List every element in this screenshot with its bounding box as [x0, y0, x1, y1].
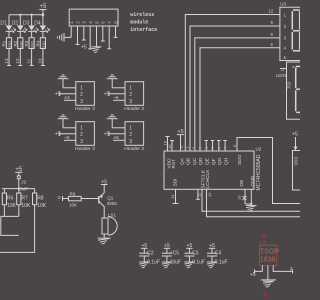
wire U4 pin3 out (2)	[273, 265, 293, 273]
svg-text:R8: R8	[37, 196, 44, 202]
svg-text:QG: QG	[217, 157, 223, 165]
label wireless module interface	[130, 12, 157, 33]
wire pin1 to ground	[112, 119, 125, 128]
wire pullup rail	[2, 189, 35, 193]
wire pin7 stub	[107, 26, 111, 49]
svg-text:QE: QE	[205, 158, 211, 165]
net stub 10	[38, 49, 45, 66]
svg-text:A4: A4	[64, 95, 70, 100]
svg-text:R7: R7	[21, 196, 28, 202]
+5 power at Q1 emitter	[101, 180, 108, 186]
capacitor C3 0.1uF	[184, 243, 205, 265]
svg-text:R9: R9	[70, 192, 76, 197]
resistor R2	[13, 31, 23, 48]
jumper J2 JMP	[17, 176, 28, 193]
svg-text:2: 2	[129, 92, 132, 98]
svg-text:+5: +5	[292, 132, 298, 138]
svg-text:2: 2	[129, 132, 132, 138]
wire pin1 to bus ground	[64, 26, 71, 37]
svg-text:3: 3	[129, 139, 132, 145]
ground (stacked bars)	[58, 75, 69, 79]
ground	[91, 47, 101, 53]
svg-text:R1: R1	[2, 40, 7, 46]
svg-text:VDD: VDD	[294, 157, 299, 166]
wire pin5 to ground	[96, 26, 98, 47]
ground	[162, 262, 172, 268]
header P3 (~5)	[75, 122, 95, 152]
wire R8 output	[0, 205, 35, 253]
wire QC to display pin (8)	[195, 32, 280, 151]
transistor Q1 3906	[99, 185, 117, 215]
svg-text:330: 330	[41, 41, 46, 48]
svg-text:MC74HC595AD: MC74HC595AD	[256, 154, 262, 190]
svg-text:QH: QH	[223, 157, 229, 165]
svg-text:12: 12	[207, 192, 212, 197]
wire pin3 net ~5	[64, 135, 76, 140]
connector J1 wireless module	[69, 9, 118, 26]
ground (stacked bars)	[107, 115, 118, 119]
svg-text:3906: 3906	[107, 201, 118, 206]
svg-text:1: 1	[80, 126, 83, 132]
svg-text:C3: C3	[192, 251, 199, 257]
ground (stacked bars)	[107, 75, 118, 79]
resistor R4	[36, 31, 46, 48]
IC U2 MC74HC595AD	[164, 145, 262, 190]
+5 power arrow at U1	[292, 132, 298, 151]
svg-text:3: 3	[80, 139, 83, 145]
svg-text:6: 6	[217, 147, 221, 149]
header P4 (A5)	[124, 122, 144, 152]
wire SDO (pin 9) to U1	[232, 138, 300, 204]
wire pin1 to ground	[112, 79, 125, 88]
svg-text:+5: +5	[81, 45, 87, 51]
svg-text:12: 12	[269, 9, 274, 14]
svg-text:+C5: +C5	[170, 251, 180, 257]
+5 power at J2	[15, 167, 23, 177]
svg-text:module: module	[130, 20, 148, 26]
LED6 7-seg digit (partial)	[296, 66, 300, 112]
svg-text:7: 7	[224, 147, 228, 149]
wire pin3 stub	[82, 26, 86, 40]
VDD pin 16 stub	[163, 137, 170, 152]
svg-text:+5: +5	[55, 132, 61, 138]
resistor R6 10K	[2, 193, 16, 209]
svg-text:2: 2	[80, 132, 83, 138]
svg-text:12: 12	[15, 58, 21, 64]
svg-text:13: 13	[237, 195, 242, 200]
wire QD to display pin (6)	[200, 42, 280, 151]
svg-text:+5: +5	[55, 92, 61, 98]
svg-text:QF: QF	[211, 158, 217, 165]
svg-text:1: 1	[186, 147, 190, 149]
svg-text:13: 13	[4, 58, 10, 64]
svg-text:QA: QA	[179, 157, 185, 165]
resistor R1	[2, 31, 12, 48]
wire QB to display pin (9)	[190, 20, 280, 151]
+5 power	[104, 91, 125, 97]
resistor R9 10K	[69, 192, 99, 208]
pin stub (10) below U2	[196, 189, 200, 199]
OE pin 13 with no-ERC X	[237, 189, 252, 204]
svg-text:4: 4	[205, 147, 209, 149]
LED D3	[23, 15, 38, 33]
svg-text:R4: R4	[36, 40, 41, 46]
ground	[263, 281, 274, 287]
svg-text:3: 3	[129, 99, 132, 105]
wire LED supply rail	[9, 13, 44, 16]
+5 power	[55, 131, 76, 137]
marker dot (bottom)	[264, 293, 268, 297]
svg-text:330: 330	[30, 41, 35, 48]
svg-text:10K: 10K	[37, 203, 47, 209]
LED D1	[0, 15, 15, 33]
LED D2	[12, 15, 27, 33]
svg-text:QC: QC	[192, 157, 198, 165]
svg-text:Header 3: Header 3	[124, 146, 144, 152]
svg-text:A5: A5	[113, 135, 119, 140]
svg-text:10K: 10K	[7, 203, 17, 209]
net stub 11	[26, 49, 33, 66]
ground (stacked bars)	[58, 115, 69, 119]
wire pin2 +5	[76, 26, 87, 51]
wire pin3 net A4	[64, 95, 76, 100]
svg-text:2: 2	[80, 92, 83, 98]
svg-text:OE: OE	[239, 180, 245, 187]
svg-text:330: 330	[18, 41, 23, 48]
svg-text:Header 3: Header 3	[124, 106, 144, 112]
svg-text:10K: 10K	[69, 202, 77, 207]
IC U1 (partial)	[293, 151, 301, 191]
capacitor C4 0.1uF	[207, 243, 228, 265]
svg-text:1: 1	[129, 86, 132, 92]
7-segment display U3	[280, 2, 300, 61]
svg-text:1: 1	[80, 86, 83, 92]
svg-text:LED6: LED6	[276, 73, 288, 78]
display LED6	[276, 62, 300, 119]
svg-text:+5: +5	[104, 132, 110, 138]
7-seg digit	[292, 10, 300, 51]
svg-text:~6: ~6	[113, 95, 119, 100]
header P1 (A4)	[75, 82, 95, 112]
svg-text:10: 10	[38, 58, 44, 64]
wire pin1 to ground	[63, 79, 76, 88]
svg-text:interface: interface	[130, 27, 157, 33]
svg-text:+5: +5	[104, 92, 110, 98]
svg-text:+5: +5	[250, 272, 256, 278]
ground	[207, 262, 217, 268]
ground	[98, 238, 111, 244]
wire U4 pin2 ground	[261, 265, 276, 280]
svg-text:RST: RST	[171, 159, 177, 169]
svg-text:3: 3	[80, 99, 83, 105]
resistor R3	[24, 31, 34, 48]
wire pin6 stub	[101, 26, 105, 41]
ground (sideways bars)	[57, 33, 64, 42]
svg-text:R2: R2	[13, 40, 18, 46]
QE-QH pin stubs	[204, 141, 227, 152]
net stub 12	[15, 49, 22, 66]
RST pin 10 stub	[167, 141, 174, 152]
resistor R8 10K	[33, 193, 47, 209]
svg-text:GND: GND	[250, 175, 256, 186]
speaker LS1	[102, 212, 117, 238]
IR receiver U4 TSOP1838	[260, 241, 280, 266]
svg-text:10: 10	[167, 144, 172, 149]
SDI pin 14 stub	[170, 189, 179, 203]
svg-text:QB: QB	[186, 158, 192, 165]
svg-text:-3: -3	[57, 195, 61, 200]
capacitor C2 0.1uF	[139, 243, 160, 265]
svg-text:~5: ~5	[64, 135, 70, 140]
svg-text:SDI: SDI	[172, 179, 178, 187]
svg-text:U2: U2	[256, 147, 262, 152]
svg-text:10K: 10K	[21, 203, 31, 209]
svg-text:Header 3: Header 3	[75, 146, 95, 152]
svg-text:703: 703	[287, 81, 292, 89]
svg-text:14: 14	[170, 194, 175, 199]
svg-text:11: 11	[26, 58, 32, 63]
+5 power	[55, 91, 76, 97]
svg-text:2: 2	[192, 147, 196, 149]
wire QA to display pin (12)	[185, 9, 279, 152]
svg-text:330: 330	[7, 41, 12, 48]
svg-text:U3: U3	[280, 2, 286, 7]
svg-text:TSOP: TSOP	[260, 248, 279, 255]
wire pin4 stub	[88, 26, 92, 49]
svg-text:C2: C2	[147, 251, 154, 257]
svg-text:Q1: Q1	[107, 195, 114, 200]
wire R6/R7 outputs	[1, 205, 19, 236]
wire pin1 to ground	[63, 119, 76, 128]
marker dot (top)	[262, 235, 266, 239]
wire pin8 stub	[114, 26, 118, 37]
svg-text:R3: R3	[24, 40, 29, 46]
wire SRTCLK (11)	[197, 189, 301, 211]
resistor R7 10K	[17, 193, 31, 209]
net stub -3	[57, 195, 69, 201]
LED D4	[34, 15, 49, 33]
wire pin3 net ~6	[113, 95, 125, 100]
+5 power rail (LED block)	[39, 4, 47, 15]
ground	[246, 206, 257, 212]
+5 power	[104, 131, 125, 137]
header P2 (~6)	[124, 82, 144, 112]
svg-text:1: 1	[129, 126, 132, 132]
wire LCHCLK (12)	[207, 189, 301, 217]
wire pin3 net A5	[113, 135, 125, 140]
svg-text:wireless: wireless	[130, 12, 154, 18]
GND pin 8	[250, 189, 252, 205]
svg-text:SDO: SDO	[237, 154, 243, 165]
capacitor C5 10uF	[162, 243, 181, 265]
wire U4 pin1 +5	[250, 265, 262, 278]
svg-text:QD: QD	[198, 157, 204, 165]
ground	[139, 262, 149, 268]
svg-text:5: 5	[211, 147, 215, 149]
net stub 13	[4, 49, 11, 66]
svg-text:Header 3: Header 3	[75, 106, 95, 112]
+5 power at U2 VDD	[177, 129, 184, 151]
svg-text:R6: R6	[7, 196, 14, 202]
svg-text:LCHCLK: LCHCLK	[205, 169, 211, 189]
ground	[184, 262, 194, 268]
svg-text:J2: J2	[21, 180, 26, 185]
svg-text:1838: 1838	[260, 257, 276, 264]
svg-text:C4: C4	[215, 251, 222, 257]
